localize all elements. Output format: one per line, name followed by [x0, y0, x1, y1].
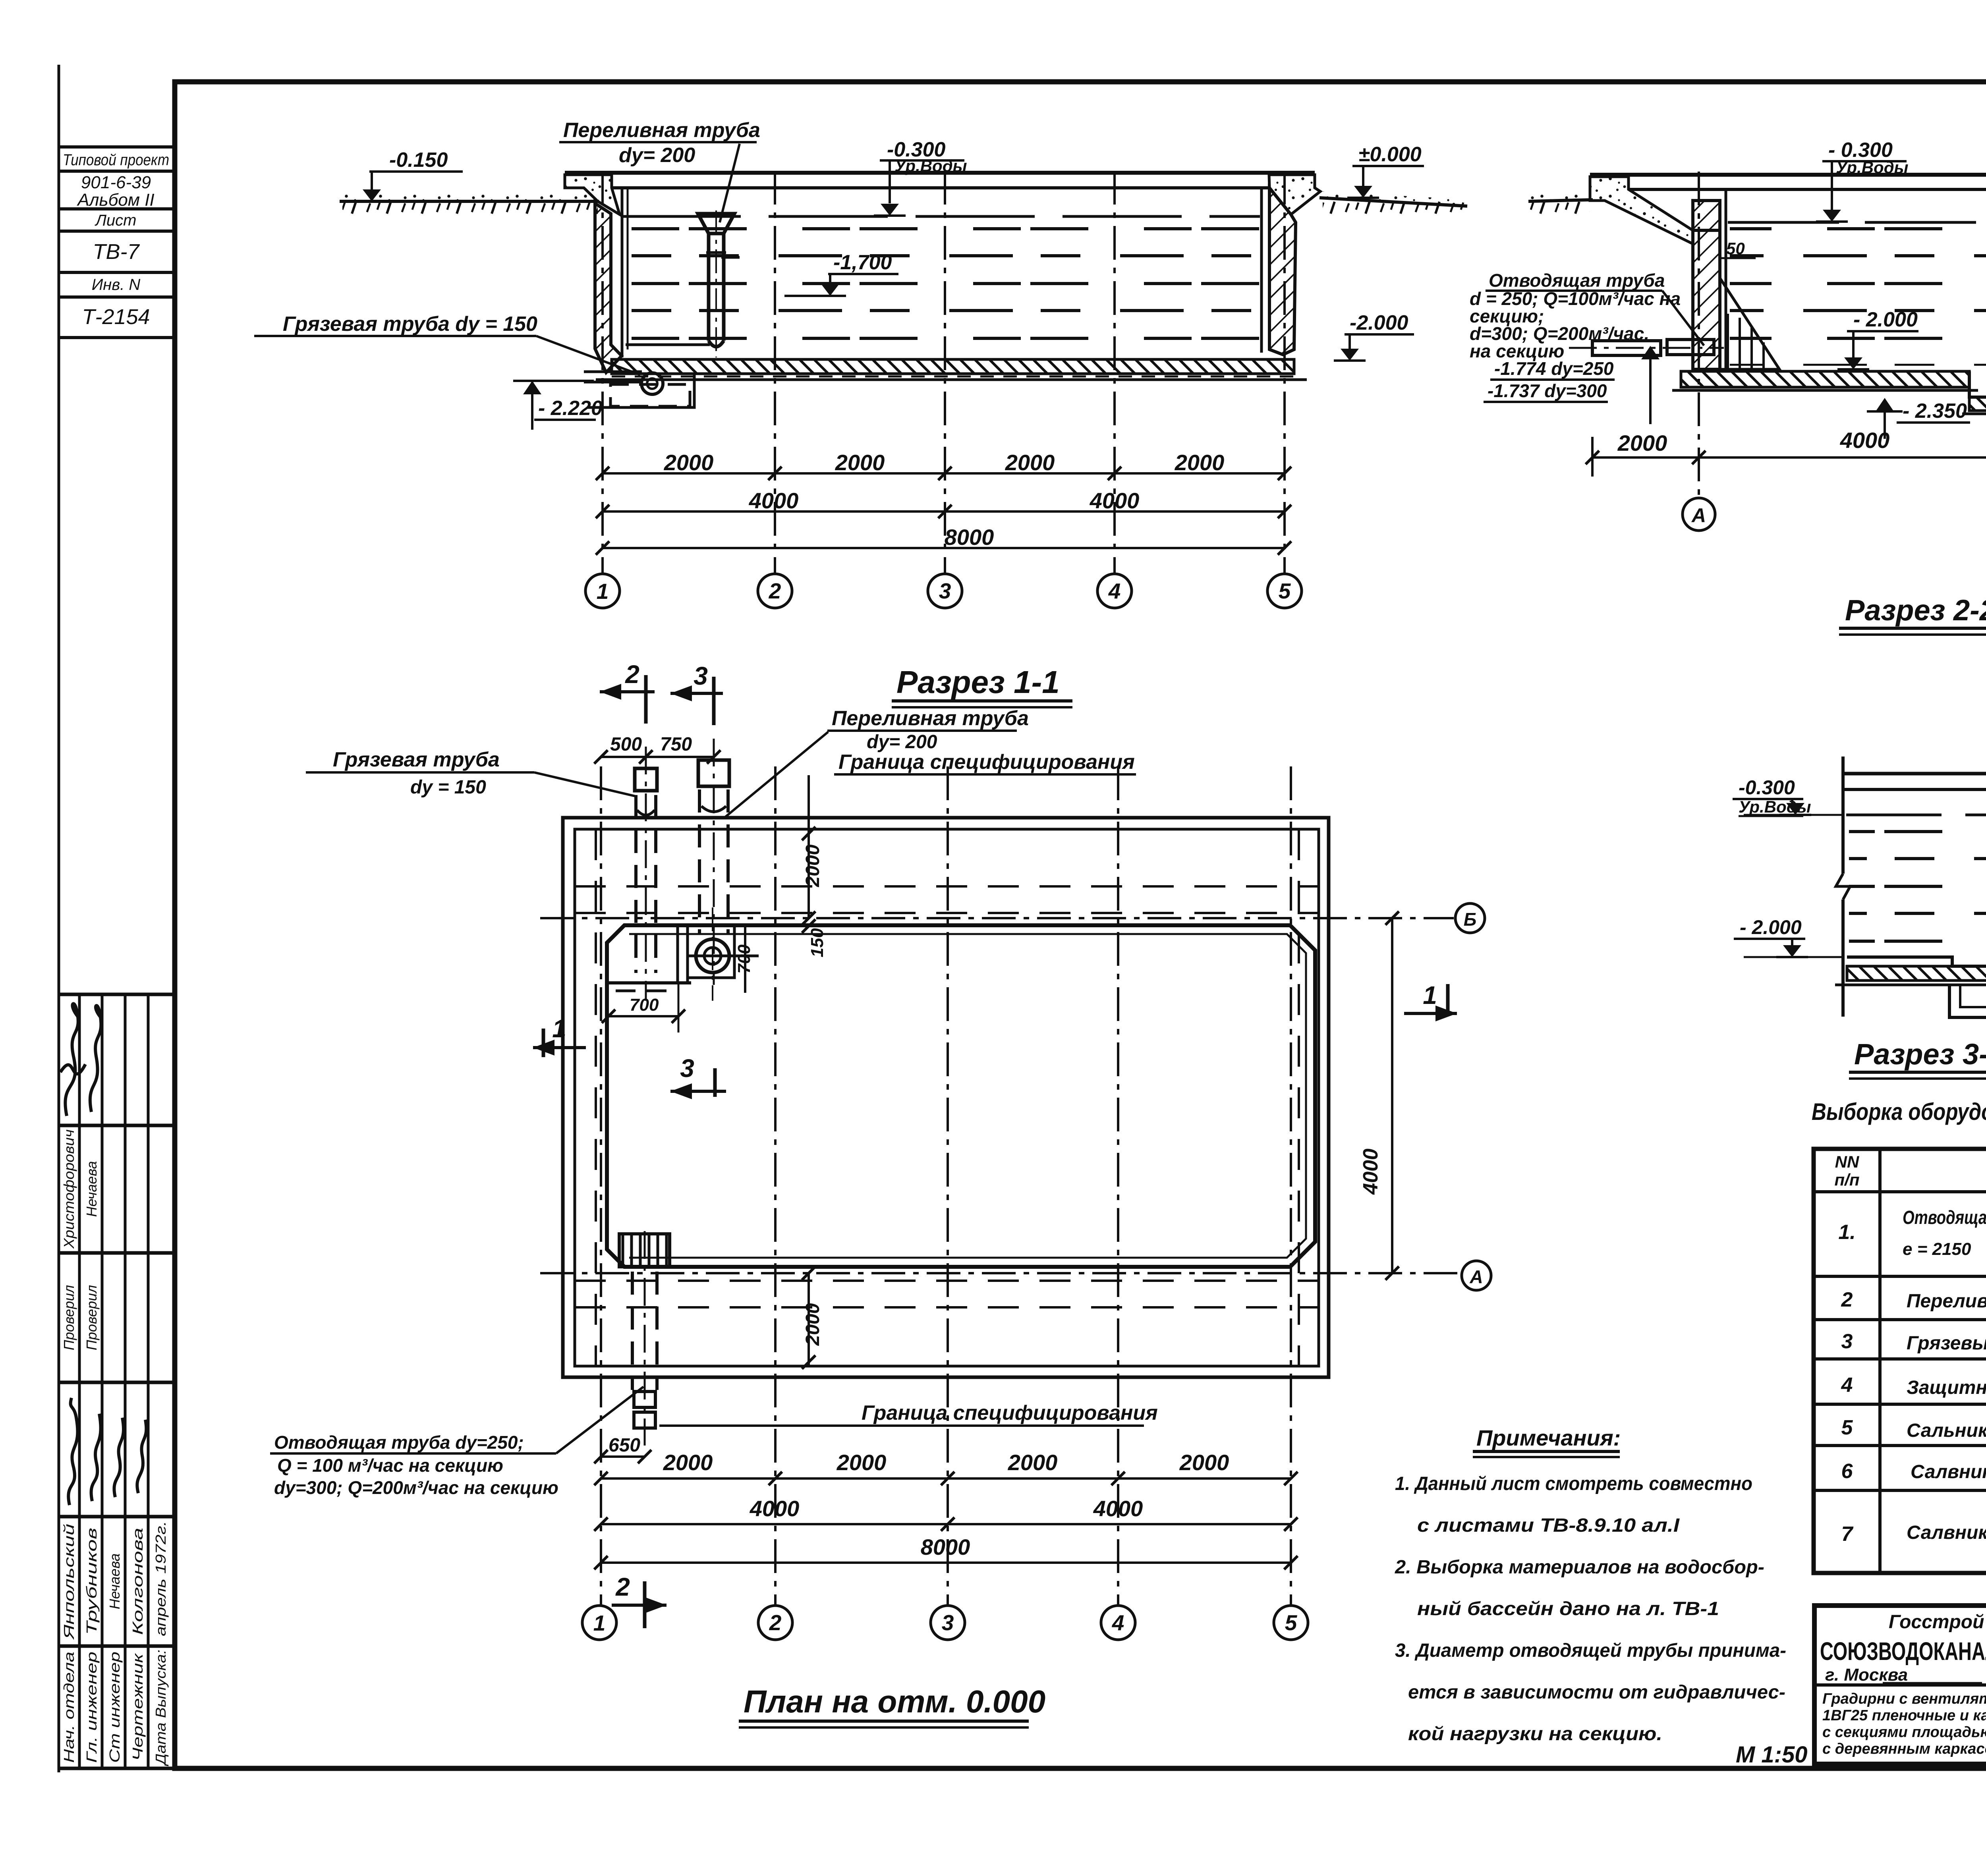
svg-text:Инв. N: Инв. N: [92, 276, 141, 293]
svg-text:Ст инженер: Ст инженер: [106, 1652, 123, 1763]
svg-text:М 1:50: М 1:50: [1736, 1742, 1808, 1768]
svg-text:А: А: [1691, 504, 1706, 527]
svg-text:-1,700: -1,700: [833, 251, 892, 274]
svg-text:2000: 2000: [1175, 450, 1225, 475]
svg-text:Христофорович: Христофорович: [61, 1129, 77, 1249]
svg-text:Разрез 3-3: Разрез 3-3: [1854, 1038, 1986, 1071]
svg-text:е = 2150: е = 2150: [1903, 1239, 1971, 1259]
svg-text:- 2.220: - 2.220: [538, 397, 603, 420]
svg-text:Грязевыя труба dy=150: Грязевыя труба dy=150: [1907, 1333, 1986, 1354]
svg-text:NN: NN: [1835, 1152, 1860, 1171]
svg-text:dy = 150: dy = 150: [410, 777, 486, 798]
svg-text:Нач. отдела: Нач. отдела: [61, 1652, 77, 1763]
svg-text:4: 4: [1112, 1610, 1124, 1635]
svg-text:4000: 4000: [749, 488, 799, 513]
svg-text:Колгонова: Колгонова: [129, 1528, 146, 1635]
svg-text:750: 750: [660, 734, 692, 755]
svg-text:Госстрой СССР: Госстрой СССР: [1889, 1612, 1986, 1633]
svg-text:2000: 2000: [802, 1303, 823, 1346]
svg-text:Салвник Ду = 200: Салвник Ду = 200: [1911, 1461, 1986, 1482]
svg-text:±0.000: ±0.000: [1358, 143, 1422, 166]
svg-text:Q = 100 м³/час на секцию: Q = 100 м³/час на секцию: [277, 1455, 503, 1476]
svg-text:Ур.Воды: Ур.Воды: [1836, 158, 1909, 177]
svg-text:2000: 2000: [663, 1450, 713, 1475]
svg-text:-0.300: -0.300: [1739, 776, 1795, 799]
svg-text:Отводящая тр-ба: Отводящая тр-ба: [1903, 1207, 1986, 1228]
svg-text:2000: 2000: [664, 450, 714, 475]
svg-text:Салвник: Салвник: [1907, 1522, 1986, 1543]
svg-text:Защитная решетка: Защитная решетка: [1907, 1377, 1986, 1398]
svg-text:2. Выборка материалов на: 2. Выборка материалов на водосбор-: [1395, 1557, 1764, 1578]
svg-text:3: 3: [694, 662, 708, 690]
svg-text:Проверил: Проверил: [83, 1285, 100, 1351]
svg-text:2000: 2000: [835, 450, 885, 475]
svg-text:901-6-39: 901-6-39: [81, 173, 151, 192]
svg-text:2: 2: [625, 660, 639, 689]
svg-text:Янпольский: Янпольский: [61, 1524, 77, 1640]
svg-text:2: 2: [769, 579, 781, 603]
svg-text:Проверил: Проверил: [61, 1285, 77, 1351]
svg-text:2: 2: [769, 1610, 782, 1635]
svg-text:-1.737 dy=300: -1.737 dy=300: [1488, 380, 1607, 401]
svg-text:кой нагрузки на секцию.: кой нагрузки на секцию.: [1408, 1724, 1662, 1745]
svg-text:4000: 4000: [1090, 488, 1140, 513]
svg-text:Граница специфицирования: Граница специфицирования: [862, 1401, 1158, 1424]
svg-text:-2.000: -2.000: [1350, 311, 1408, 334]
svg-text:1.: 1.: [1838, 1221, 1855, 1244]
svg-text:Грязевая труба dy = 150: Грязевая труба dy = 150: [283, 313, 537, 336]
svg-text:1: 1: [552, 1014, 566, 1043]
svg-text:4: 4: [1108, 579, 1121, 603]
svg-text:50: 50: [1726, 239, 1745, 258]
svg-text:2: 2: [1841, 1288, 1853, 1311]
svg-text:2000: 2000: [802, 844, 823, 887]
svg-text:4000: 4000: [1093, 1496, 1143, 1521]
svg-text:Разрез 1-1: Разрез 1-1: [896, 664, 1060, 700]
svg-text:1ВГ25 пленочные и капельные: 1ВГ25 пленочные и капельные: [1822, 1707, 1986, 1724]
svg-text:2000: 2000: [1005, 450, 1055, 475]
svg-text:Сальник Ду= 150: Сальник Ду= 150: [1907, 1420, 1986, 1441]
svg-text:г. Москва: г. Москва: [1825, 1665, 1908, 1685]
svg-text:Нечаева: Нечаева: [106, 1554, 123, 1610]
svg-text:Альбом II: Альбом II: [76, 190, 154, 210]
svg-text:2000: 2000: [1617, 430, 1667, 455]
svg-text:- 2.350: - 2.350: [1903, 400, 1967, 423]
svg-text:4000: 4000: [1840, 428, 1890, 453]
svg-text:План на отм. 0.000: План на отм. 0.000: [744, 1684, 1045, 1719]
svg-text:8000: 8000: [945, 525, 994, 550]
svg-text:ТВ-7: ТВ-7: [93, 240, 140, 264]
svg-text:5: 5: [1841, 1416, 1853, 1439]
svg-text:dy=300; Q=200м³/час на секцию: dy=300; Q=200м³/час на секцию: [274, 1477, 558, 1498]
svg-text:Гл. инженер: Гл. инженер: [83, 1652, 100, 1763]
svg-text:4: 4: [1841, 1374, 1853, 1397]
svg-text:Трубников: Трубников: [83, 1528, 100, 1635]
svg-text:1. Данный лист смотреть сов: 1. Данный лист смотреть совместно: [1395, 1473, 1752, 1494]
svg-text:Граница специфицирования: Граница специфицирования: [838, 751, 1135, 774]
svg-text:150: 150: [808, 928, 827, 957]
svg-text:-0.150: -0.150: [389, 149, 448, 172]
svg-text:Лист: Лист: [95, 212, 137, 229]
svg-text:1: 1: [593, 1611, 606, 1635]
svg-text:3: 3: [939, 579, 951, 603]
svg-text:Типовой проект: Типовой проект: [63, 151, 169, 169]
svg-text:- 2.000: - 2.000: [1740, 916, 1802, 938]
svg-text:Переливная труба: Переливная труба: [563, 119, 760, 142]
svg-text:6: 6: [1841, 1460, 1853, 1483]
svg-text:2000: 2000: [1008, 1450, 1058, 1475]
svg-text:с секциями площадью 16кв.мм: с секциями площадью 16кв.мм: [1822, 1724, 1986, 1741]
svg-text:3: 3: [680, 1054, 694, 1083]
svg-text:ется в зависимости от гид: ется в зависимости от гидравличес-: [1408, 1682, 1785, 1703]
svg-text:2000: 2000: [1179, 1450, 1229, 1475]
svg-text:Выборка оборудования на вод: Выборка оборудования на водосборный басс…: [1812, 1098, 1986, 1125]
svg-text:3. Диаметр отводящей трубы: 3. Диаметр отводящей трубы принима-: [1395, 1640, 1786, 1661]
svg-text:Т-2154: Т-2154: [82, 305, 150, 329]
svg-text:3: 3: [942, 1610, 954, 1635]
svg-text:Отводящая труба: Отводящая труба: [1489, 270, 1665, 291]
svg-text:Нечаева: Нечаева: [83, 1161, 100, 1217]
svg-text:Ур.Воды: Ур.Воды: [894, 156, 967, 175]
svg-text:Б: Б: [1464, 909, 1477, 930]
svg-text:Отводящая труба dy=250;: Отводящая труба dy=250;: [274, 1432, 524, 1453]
svg-text:Разрез 2-2: Разрез 2-2: [1845, 594, 1986, 627]
svg-text:с деревянным каркасом.: с деревянным каркасом.: [1822, 1741, 1986, 1757]
svg-text:п/п: п/п: [1835, 1170, 1860, 1189]
svg-text:-1.774 dy=250: -1.774 dy=250: [1494, 358, 1614, 379]
svg-text:7: 7: [1841, 1523, 1854, 1546]
svg-text:650: 650: [609, 1435, 640, 1456]
svg-text:с листами ТВ-8.9.10 ал.I: с листами ТВ-8.9.10 ал.I: [1417, 1515, 1680, 1536]
svg-text:2000: 2000: [837, 1450, 887, 1475]
svg-text:dy= 200: dy= 200: [867, 731, 937, 753]
svg-text:Примечания:: Примечания:: [1476, 1425, 1621, 1450]
svg-text:- 2.000: - 2.000: [1853, 308, 1918, 331]
svg-text:8000: 8000: [921, 1534, 970, 1559]
svg-text:1: 1: [1423, 981, 1437, 1009]
svg-text:Переливная труба dy=200: Переливная труба dy=200: [1907, 1291, 1986, 1312]
svg-text:4000: 4000: [1359, 1148, 1382, 1195]
svg-text:Дата Выпуска:: Дата Выпуска:: [153, 1650, 169, 1766]
svg-text:А: А: [1469, 1266, 1483, 1287]
svg-text:1: 1: [597, 579, 609, 604]
svg-text:dy= 200: dy= 200: [619, 144, 695, 167]
svg-text:4000: 4000: [750, 1496, 800, 1521]
svg-text:2: 2: [615, 1573, 630, 1601]
svg-text:Градирни с вентиляторами: Градирни с вентиляторами: [1822, 1691, 1986, 1707]
svg-text:700: 700: [630, 995, 659, 1015]
svg-text:500: 500: [610, 734, 642, 755]
svg-text:5: 5: [1285, 1610, 1298, 1635]
svg-text:3: 3: [1841, 1330, 1853, 1353]
svg-text:ный бассейн дано на л.: ный бассейн дано на л. ТВ-1: [1417, 1598, 1719, 1619]
svg-text:Переливная труба: Переливная труба: [832, 707, 1029, 730]
svg-text:апрель 1972г.: апрель 1972г.: [153, 1521, 169, 1636]
svg-text:СОЮЗВОДОКАНАЛПРОЕКТ: СОЮЗВОДОКАНАЛПРОЕКТ: [1820, 1637, 1986, 1666]
svg-text:Грязевая труба: Грязевая труба: [333, 748, 500, 771]
svg-text:5: 5: [1279, 579, 1291, 603]
svg-text:Чертежник: Чертежник: [129, 1652, 146, 1761]
